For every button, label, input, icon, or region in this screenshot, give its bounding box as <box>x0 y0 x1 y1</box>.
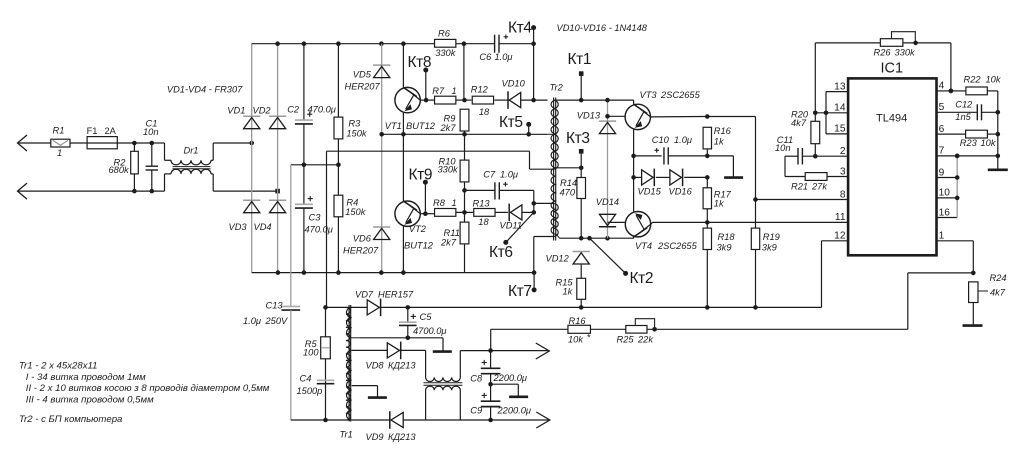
wire pin9 <box>937 177 958 179</box>
svg-text:R18: R18 <box>718 232 736 242</box>
node pin1 / R24 <box>971 271 976 276</box>
svg-text:VD16: VD16 <box>669 187 693 197</box>
wire pin12 drop <box>821 241 823 308</box>
wire R13 to VD11 <box>495 211 508 213</box>
wire C5 ground stub <box>442 338 444 351</box>
capacitor C10 <box>663 147 665 164</box>
wire VD8 line <box>352 349 388 351</box>
wire ground stub vertical <box>732 156 734 177</box>
wire bridge column B vertical <box>277 44 279 273</box>
wire pin12 <box>822 240 849 242</box>
svg-text:R12: R12 <box>471 84 489 94</box>
svg-text:VD4: VD4 <box>254 222 272 232</box>
node R20 bottom / pin2 <box>813 154 818 159</box>
wire C10 right lead <box>668 155 707 157</box>
capacitor C2 <box>295 119 313 121</box>
svg-text:2SC2655: 2SC2655 <box>657 241 698 251</box>
ground Tr1 center tap <box>368 396 387 399</box>
node pin13/15 tie <box>824 111 829 116</box>
diode VD2 <box>269 115 286 117</box>
wire pin8 <box>756 199 849 201</box>
node bottom rail / C3 column <box>302 270 307 275</box>
svg-text:R1: R1 <box>53 126 65 136</box>
svg-text:R24: R24 <box>990 273 1007 283</box>
wire R4 bottom lead <box>337 217 339 273</box>
resistor R18 <box>703 228 711 249</box>
wire VT2 emitter lead <box>402 226 404 272</box>
diode VD14 <box>599 226 616 228</box>
node VD13 column / secondary top <box>605 98 610 103</box>
wire VD9 line <box>352 419 391 421</box>
wire R4 top lead <box>337 165 339 195</box>
wire Tr2 secondary mid tap <box>556 167 581 169</box>
svg-text:3k9: 3k9 <box>762 243 777 253</box>
node R23 / right rail <box>996 132 1001 137</box>
svg-text:4k7: 4k7 <box>990 288 1006 298</box>
node VD11 / Kt6 pointer <box>532 210 537 215</box>
wire Kt4 stub <box>533 28 535 44</box>
wire VD10 to Tr2 primary top <box>521 99 548 101</box>
svg-text:TL494: TL494 <box>876 112 907 124</box>
node R3/R4 junction on mid rail <box>336 163 341 168</box>
svg-text:BUT12: BUT12 <box>404 241 434 251</box>
svg-text:R19: R19 <box>763 232 780 242</box>
capacitor C6 <box>494 35 496 53</box>
node pin7 / right rail <box>996 154 1001 159</box>
node C8 top / feedback tap <box>488 348 493 353</box>
wire choke top-left drop <box>425 350 427 377</box>
node R17 bottom / R18 top <box>705 220 710 225</box>
svg-text:Кт8: Кт8 <box>408 54 432 71</box>
wire to ground stub <box>707 155 733 157</box>
diode VD7 <box>367 300 379 315</box>
wire Kt9 stub <box>424 182 426 214</box>
wire Tr2 primary bottom drop <box>529 151 531 169</box>
node top rail / C2 column <box>302 41 307 46</box>
test point Kt4 dot <box>531 25 536 30</box>
svg-text:1k: 1k <box>714 199 725 209</box>
wire VT3 right lead / W1 <box>651 116 704 118</box>
svg-text:10: 10 <box>939 188 951 199</box>
wire mid junction to ground <box>491 383 519 385</box>
svg-text:C3: C3 <box>309 213 322 223</box>
Dr1 top winding <box>171 160 211 165</box>
resistor R15 <box>577 278 586 299</box>
node R18 / lower rail <box>705 305 710 310</box>
svg-text:C10: C10 <box>652 135 670 145</box>
wire R9 to R10 <box>464 131 466 160</box>
svg-text:2k7: 2k7 <box>440 123 457 133</box>
transformer Tr2 core <box>553 98 555 241</box>
svg-text:R3: R3 <box>348 119 361 129</box>
wire VT1 collector lead <box>402 44 404 88</box>
wire R19 column upper <box>755 117 757 229</box>
svg-text:VD15: VD15 <box>638 187 662 197</box>
svg-text:10k: 10k <box>981 138 997 148</box>
svg-text:1.0μ: 1.0μ <box>500 170 518 180</box>
svg-text:HER207: HER207 <box>345 81 381 91</box>
wire VT4 top lead <box>633 177 635 211</box>
wire feedback rail drop to Tr1 rail <box>326 151 328 307</box>
wire pin2 <box>803 155 849 157</box>
capacitor C3 <box>295 203 313 205</box>
AC input terminal bottom arrow <box>18 183 28 199</box>
node top rail / R3 column <box>336 41 341 46</box>
svg-text:6: 6 <box>939 124 945 135</box>
wire aux winding drop to bottom rail <box>533 237 535 273</box>
node bottom rail / VD4 column <box>276 270 281 275</box>
Tr2 secondary winding upper <box>551 100 556 168</box>
wire R26 to pin4 <box>950 43 952 91</box>
wire R15 bottom lead <box>580 299 582 307</box>
wire R7 to R12 <box>456 99 472 101</box>
wire VT4 emitter line y=238.2 <box>560 237 634 239</box>
svg-text:18: 18 <box>479 107 490 117</box>
wire VD13/VD14 column <box>607 100 609 238</box>
svg-text:4k7: 4k7 <box>791 118 807 128</box>
svg-text:10n: 10n <box>143 127 159 137</box>
wire C2 top lead <box>303 44 305 120</box>
wire R1 to F1 <box>70 142 87 144</box>
wire to R26 <box>815 42 880 44</box>
node VT1 emitter / mid rail <box>401 132 406 137</box>
node Kt1 stub junction <box>579 98 584 103</box>
svg-text:2SC2655: 2SC2655 <box>660 90 701 100</box>
Tr2 secondary winding lower <box>551 168 556 235</box>
wire Kt2 pointer diagonal <box>590 238 626 273</box>
wire top positive rail <box>252 43 435 45</box>
wire VT3 emitter column <box>633 130 635 178</box>
wire feedback rail y=151.2 <box>327 150 530 152</box>
wire Kt7 stub <box>533 273 535 290</box>
wire VD11 to C7 column <box>522 211 534 213</box>
wire lower rail y=307.4 <box>326 306 368 308</box>
svg-text:R13: R13 <box>473 199 491 209</box>
transformer Tr1 core <box>348 305 350 422</box>
svg-text:2A: 2A <box>105 126 117 136</box>
ground right rail <box>988 169 1008 172</box>
svg-text:1n5: 1n5 <box>955 112 971 122</box>
wire input top to R1 <box>18 142 51 144</box>
capacitor C8 <box>490 351 492 369</box>
wire pin7/9/10/16 tie <box>956 156 958 218</box>
wire right rail <box>997 91 999 169</box>
wire R12 to VD10 <box>494 99 507 101</box>
node lower rail / Tr1 column <box>323 305 328 310</box>
svg-text:C9: C9 <box>470 406 482 416</box>
node C10 left junction <box>631 154 636 159</box>
wire feedback riser to pin1 line <box>907 273 909 329</box>
svg-text:470: 470 <box>560 188 576 198</box>
svg-text:11: 11 <box>835 212 846 223</box>
svg-text:VT1: VT1 <box>385 121 402 131</box>
svg-text:Tr2: Tr2 <box>550 83 564 93</box>
wire C13 column upper <box>290 165 292 306</box>
wire Dr1 bottom-right lead <box>212 174 214 191</box>
node R9 column / emitter rail <box>462 132 467 137</box>
wire pin5 <box>937 111 977 113</box>
node R5/C4 bottom junction <box>323 418 328 423</box>
wire to R21 <box>785 176 805 178</box>
wire Dr1 bottom-left lead <box>164 174 166 191</box>
svg-text:Tr1 - 2 x 45x28x11: Tr1 - 2 x 45x28x11 <box>19 361 98 372</box>
wire R24 bottom lead <box>972 303 974 326</box>
svg-text:18: 18 <box>478 217 489 227</box>
node Kt2 pointer junction <box>587 236 592 241</box>
Dr1 bottom winding <box>171 169 211 174</box>
svg-text:КД213: КД213 <box>388 432 416 442</box>
svg-text:VT3: VT3 <box>640 90 658 100</box>
wire output plus line <box>460 350 549 352</box>
wire R22 right <box>987 90 998 92</box>
svg-text:1.0μ: 1.0μ <box>243 316 261 326</box>
node pin10 tie <box>955 196 960 201</box>
svg-text:1: 1 <box>452 198 457 208</box>
wire choke bottom-left drop <box>425 390 427 420</box>
svg-text:C12: C12 <box>955 100 973 110</box>
resistor R3 <box>334 117 343 139</box>
op-amp/PWM IC1 TL494 box <box>848 78 936 255</box>
svg-text:VD1-VD4 - FR307: VD1-VD4 - FR307 <box>167 85 243 95</box>
wire Kt3 stub to R14 <box>580 151 582 177</box>
svg-text:HER157: HER157 <box>378 290 414 300</box>
resistor R13 <box>474 209 495 217</box>
resistor R2 <box>131 151 139 174</box>
svg-text:C13: C13 <box>266 301 284 311</box>
wire R3 top lead <box>337 44 339 118</box>
resistor R12 <box>472 96 493 104</box>
wire choke bottom-right riser <box>459 390 461 420</box>
wire R20 bottom lead <box>814 144 816 157</box>
inductor L1 coupled choke <box>426 377 461 381</box>
output plus arrow <box>536 343 550 359</box>
node Kt5 stub junction <box>526 132 531 137</box>
wire pin7 <box>937 155 998 157</box>
wire Dr1 to bridge column B <box>213 190 277 192</box>
wire pin13 <box>826 91 848 93</box>
wire R6 node to R7 node vertical <box>463 44 465 100</box>
svg-text:C5: C5 <box>420 312 433 322</box>
node R26 wiper junction <box>913 41 918 46</box>
svg-text:2k7: 2k7 <box>440 238 457 248</box>
resistor R7 <box>435 96 456 104</box>
node C1 top junction <box>150 141 155 146</box>
node R25 wiper junction <box>652 327 657 332</box>
svg-text:2: 2 <box>840 146 846 157</box>
svg-text:VD7: VD7 <box>355 290 374 300</box>
R26 wiper <box>892 32 916 43</box>
wire pin6 <box>937 133 966 135</box>
wire W1 to R19 column <box>703 116 755 118</box>
wire VD5/VD6 column <box>381 44 383 273</box>
svg-text:4700.0μ: 4700.0μ <box>413 326 447 336</box>
svg-text:C4: C4 <box>300 374 312 384</box>
node top rail right end / Kt4 column <box>531 41 536 46</box>
node R14 / VD12 / emitter line <box>579 236 584 241</box>
wire VT4 right lead to IC pin 11 / W4 <box>653 221 849 223</box>
diode VD9 <box>391 412 403 427</box>
svg-text:R21: R21 <box>791 182 808 192</box>
resistor R21 <box>805 173 827 181</box>
wire bridge column A vertical <box>251 44 253 273</box>
resistor R1 (fusible) <box>51 139 70 147</box>
svg-text:1.0μ: 1.0μ <box>495 52 513 62</box>
resistor R17 <box>703 188 711 209</box>
resistor R9 <box>460 109 469 131</box>
wire VD12 to R15 <box>580 264 582 278</box>
wire pin4 to R22 <box>951 90 966 92</box>
node R16 top <box>705 114 710 119</box>
wire Tr2 primary bottom lead <box>530 168 554 170</box>
output minus arrow <box>536 412 550 428</box>
wire VT4 base <box>608 221 626 223</box>
node VD15 line junction <box>631 175 636 180</box>
svg-text:R9: R9 <box>444 114 456 124</box>
wire to C10 <box>634 155 662 157</box>
svg-text:Кт6: Кт6 <box>489 244 513 261</box>
wire Tr2 secondary top lead <box>556 99 633 101</box>
svg-text:12: 12 <box>834 231 846 242</box>
AC input terminal top arrow <box>18 135 28 151</box>
test point Kt7 dot <box>532 287 537 292</box>
R24 tick <box>978 290 988 292</box>
wire R2 bottom lead <box>133 174 135 191</box>
ground near R17 <box>724 176 743 179</box>
capacitor C1 <box>151 143 153 166</box>
node VT1 base / Kt8 stub <box>424 98 429 103</box>
svg-text:R7: R7 <box>432 86 445 96</box>
svg-text:1500p: 1500p <box>297 386 323 396</box>
diode VD10 <box>509 93 521 108</box>
wire Tr1 ground tap <box>352 385 378 387</box>
svg-text:150k: 150k <box>345 207 367 217</box>
diode VD3 <box>243 199 260 201</box>
node pin14 / R20 top <box>813 111 818 116</box>
test point Kt8 dot <box>423 68 428 73</box>
svg-text:R6: R6 <box>438 29 451 39</box>
wire R14 to emitter line <box>580 199 582 239</box>
node C9 bottom / output minus <box>488 418 493 423</box>
svg-text:10n: 10n <box>775 143 791 153</box>
node bottom rail / R4 column <box>336 270 341 275</box>
svg-text:1k: 1k <box>563 287 574 297</box>
wire R18 bottom lead <box>706 250 708 308</box>
wire mid rail C13/C2/R3 y=164.8 <box>291 164 339 166</box>
wire R23 right <box>987 133 997 135</box>
svg-text:C2: C2 <box>287 104 300 114</box>
wire C3 bottom lead <box>303 208 305 273</box>
ground below R24 <box>963 324 983 327</box>
wire VT3 base <box>608 115 626 117</box>
capacitor C4 <box>317 379 335 381</box>
resistor R8 <box>435 209 456 217</box>
wire C5 column <box>407 307 409 322</box>
wire VT1 base to R7 <box>420 99 434 101</box>
wire Tr2 secondary bottom bend <box>556 234 559 238</box>
wire feedback rail y=329.3 <box>491 328 568 330</box>
svg-text:VD13: VD13 <box>577 111 601 121</box>
resistor R20 <box>811 121 820 143</box>
svg-text:BUT12: BUT12 <box>406 121 436 131</box>
resistor R11 <box>460 222 469 244</box>
Tr1 primary winding <box>346 307 351 420</box>
test point Kt9 dot <box>423 180 428 185</box>
transistor VT1 <box>395 87 420 112</box>
wire C2 bottom lead <box>303 124 305 165</box>
wire VT1 emitter to VT2 collector <box>402 134 404 201</box>
svg-text:8: 8 <box>840 189 846 200</box>
node VD14 column / emitter line <box>605 236 610 241</box>
svg-text:I - 34 витка проводом 1мм: I - 34 витка проводом 1мм <box>26 372 146 383</box>
capacitor C9 <box>481 400 501 402</box>
diode VD15 <box>634 176 642 178</box>
wire pin13 drop <box>825 92 827 113</box>
wire C3 top lead <box>303 165 305 204</box>
node VD6 column / bottom rail <box>379 270 384 275</box>
diode VD5 <box>373 64 390 66</box>
transistor VT4 <box>625 212 650 237</box>
wire to Dr1 top <box>152 142 165 144</box>
node bridge column B mid junction <box>275 189 280 194</box>
node R7/R9/R12 junction <box>462 98 467 103</box>
svg-text:Tr1: Tr1 <box>340 430 353 440</box>
svg-text:Кт2: Кт2 <box>630 270 654 287</box>
wire C7 right lead <box>499 189 534 191</box>
wire Tr1 bottom line <box>291 419 352 421</box>
Tr2 primary winding lower <box>553 134 558 169</box>
svg-text:9: 9 <box>939 167 945 178</box>
wire Tr1 sec1 bottom tap to C5 <box>352 337 360 339</box>
node bridge column A mid junction <box>249 141 254 146</box>
wire aux winding bottom lead <box>534 236 553 238</box>
test point Kt1 square <box>579 71 584 76</box>
node Tr2 lower winding tap <box>532 201 537 206</box>
node pin7 tie <box>955 154 960 159</box>
svg-text:VD14: VD14 <box>596 197 619 207</box>
wire VT4 bottom lead <box>633 237 635 239</box>
capacitor C13 <box>282 305 301 307</box>
node VT3 base junction <box>605 114 610 119</box>
choke core line 1 <box>424 382 463 384</box>
svg-text:VD10: VD10 <box>502 78 526 88</box>
node VD5 column / emitter rail <box>379 132 384 137</box>
wire R3 bottom lead <box>337 139 339 165</box>
svg-text:1: 1 <box>452 86 457 96</box>
Tr1 secondary winding I <box>347 307 352 337</box>
test point Kt6 dot <box>503 240 508 245</box>
svg-text:HER207: HER207 <box>343 245 379 255</box>
svg-text:R23: R23 <box>960 138 978 148</box>
svg-text:1: 1 <box>939 231 945 242</box>
svg-text:II - 2 x 10 витков косою з 8: II - 2 x 10 витков косою з 8 проводів ді… <box>26 383 270 394</box>
test point Kt5 dot <box>526 122 531 127</box>
resistor R24 <box>969 282 978 303</box>
wire main negative rail y=272.6 <box>252 272 534 274</box>
Tr2 primary winding upper <box>553 100 558 134</box>
wire Kt6 pointer diagonal <box>506 212 534 242</box>
node C7 tap on R10 column <box>462 188 467 193</box>
diode VD1 <box>243 115 260 117</box>
test point Kt2 dot <box>623 271 628 276</box>
capacitor C5 <box>399 321 417 323</box>
resistor R6 <box>435 39 456 47</box>
node R16 bottom / R17 top <box>705 154 710 159</box>
wire pin16 <box>937 217 958 219</box>
wire Kt4 column <box>533 44 535 100</box>
wire pin4 <box>937 90 951 92</box>
svg-text:Dr1: Dr1 <box>184 146 199 156</box>
node pin4 / R22 <box>949 89 954 94</box>
